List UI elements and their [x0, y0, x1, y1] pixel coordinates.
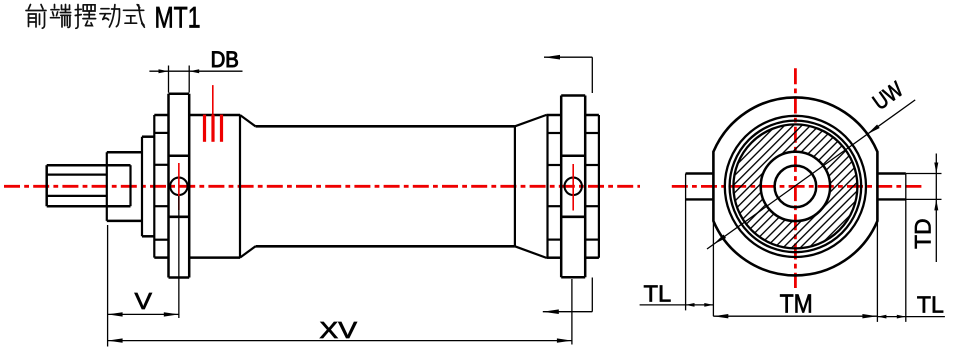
dimension TM	[713, 315, 877, 317]
title chinese: 前端摆动式	[26, 5, 144, 29]
extension line left flat	[712, 221, 714, 316]
svg-text:TL: TL	[917, 291, 944, 317]
bolt circle ring 1	[725, 116, 866, 257]
dimension DB extension lines	[168, 66, 170, 93]
svg-text:XV: XV	[319, 317, 357, 343]
housing outline with side flats	[713, 97, 877, 275]
piston rod threaded end	[47, 164, 131, 167]
gland outer circle	[733, 124, 857, 248]
rod thread core lines	[47, 174, 107, 176]
red axis mark rear	[572, 164, 574, 211]
dimension V line	[108, 313, 179, 315]
gland inner circle	[761, 152, 830, 221]
dimension TL right	[877, 316, 945, 318]
svg-text:V: V	[135, 288, 153, 314]
end view red horizontal centerline	[672, 185, 922, 188]
dimension XV line	[571, 279, 573, 345]
dimension TL left	[640, 304, 714, 306]
gland step 2	[141, 137, 143, 237]
rear cap taper top	[515, 115, 547, 126]
extension line right flat	[876, 221, 878, 322]
bolt circle ring 2	[730, 121, 862, 253]
rod circle	[775, 166, 817, 208]
svg-text:TM: TM	[780, 289, 813, 319]
front trunnion flange	[167, 94, 170, 278]
hatched gland annulus	[733, 124, 857, 248]
end view red vertical centerline	[794, 68, 797, 288]
red port bars	[203, 115, 206, 142]
trunnion pin circle	[170, 178, 187, 195]
gland block	[107, 151, 142, 154]
red port leader line	[212, 85, 214, 115]
UW diagonal dimension line	[707, 100, 915, 249]
left trunnion pin	[686, 172, 714, 174]
rear cap taper bottom	[515, 246, 547, 258]
cylinder head	[189, 114, 240, 117]
label UW	[868, 76, 908, 114]
head chamfer top	[240, 115, 256, 126]
red axis mark on trunnion	[178, 163, 180, 210]
bottom right bracket dimension	[543, 311, 593, 313]
rear nut column left	[546, 115, 548, 258]
TD extension lines	[906, 173, 942, 175]
svg-text:MT1: MT1	[155, 2, 201, 35]
TD dimension line	[935, 154, 937, 263]
head chamfer bottom	[240, 246, 256, 257]
svg-text:TD: TD	[911, 218, 936, 249]
svg-text:DB: DB	[211, 47, 239, 72]
rod shoulder face	[106, 152, 108, 221]
rear port circle	[565, 178, 582, 195]
centerline side view (red dash-dot)	[4, 185, 640, 188]
rear boss rectangle	[560, 96, 563, 278]
dimension V extension lines	[107, 225, 109, 347]
rear nut column right	[598, 115, 600, 258]
dimension DB line and arrows	[149, 70, 242, 72]
right trunnion pin	[877, 172, 905, 174]
extension line left pin end	[685, 174, 687, 311]
top right bracket dimension	[544, 56, 592, 58]
front nut column	[153, 115, 155, 258]
extension line right pin end	[905, 174, 907, 322]
cylinder tube	[256, 125, 515, 128]
label TD (rotated)	[911, 218, 936, 249]
svg-text:TL: TL	[644, 280, 672, 306]
